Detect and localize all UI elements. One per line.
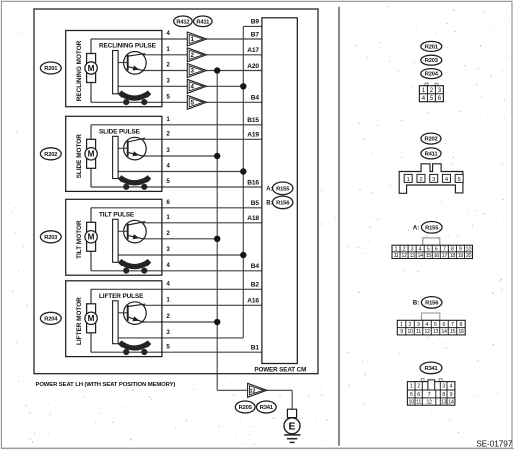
svg-text:B:: B: — [266, 201, 272, 207]
svg-text:12: 12 — [424, 329, 430, 335]
svg-text:16: 16 — [458, 329, 464, 335]
svg-text:2: 2 — [403, 246, 406, 252]
svg-text:2: 2 — [166, 230, 170, 237]
svg-text:13: 13 — [409, 253, 415, 259]
svg-text:4: 4 — [419, 246, 422, 252]
svg-text:SLIDE MOTOR: SLIDE MOTOR — [76, 134, 83, 179]
svg-text:2: 2 — [419, 177, 422, 183]
svg-text:A18: A18 — [247, 215, 259, 222]
svg-text:R411: R411 — [425, 151, 439, 157]
svg-text:2: 2 — [166, 131, 170, 138]
svg-text:R341: R341 — [424, 366, 438, 372]
svg-text:5: 5 — [166, 94, 170, 101]
svg-text:5: 5 — [410, 392, 413, 398]
svg-text:10: 10 — [409, 400, 415, 406]
svg-text:8: 8 — [459, 322, 462, 328]
svg-text:6: 6 — [417, 392, 420, 398]
svg-text:E: E — [288, 420, 295, 432]
svg-text:3: 3 — [166, 78, 170, 85]
svg-text:POWER SEAT LH (WITH SEAT POSIT: POWER SEAT LH (WITH SEAT POSITION MEMORY… — [36, 382, 176, 388]
svg-text:8: 8 — [442, 392, 445, 398]
svg-text:R156: R156 — [425, 300, 439, 306]
svg-text:1: 1 — [166, 214, 170, 221]
svg-text:B9: B9 — [251, 19, 260, 26]
svg-text:B:: B: — [413, 300, 420, 307]
svg-text:TILT MOTOR: TILT MOTOR — [76, 220, 83, 259]
svg-text:1: 1 — [395, 246, 398, 252]
svg-text:11: 11 — [416, 400, 421, 406]
svg-text:1: 1 — [166, 116, 170, 123]
svg-text:5: 5 — [166, 178, 170, 185]
svg-text:R155: R155 — [276, 186, 290, 192]
svg-text:RECLINING PULSE: RECLINING PULSE — [99, 43, 157, 50]
svg-text:R412: R412 — [176, 19, 189, 25]
svg-text:R156: R156 — [276, 200, 290, 206]
svg-text:A:: A: — [266, 187, 272, 193]
svg-text:4: 4 — [450, 384, 453, 390]
svg-text:2: 2 — [409, 322, 412, 328]
svg-text:B4: B4 — [251, 263, 260, 270]
svg-text:13: 13 — [433, 329, 439, 335]
svg-text:20: 20 — [466, 253, 472, 259]
svg-text:14: 14 — [418, 253, 424, 259]
svg-text:18: 18 — [450, 253, 456, 259]
svg-text:A20: A20 — [247, 63, 259, 70]
svg-text:R341: R341 — [260, 405, 274, 411]
svg-text:2: 2 — [417, 384, 420, 390]
svg-text:5: 5 — [190, 100, 194, 107]
svg-text:5: 5 — [458, 177, 461, 183]
svg-text:B2: B2 — [251, 282, 260, 289]
svg-text:3: 3 — [166, 147, 170, 154]
svg-text:A17: A17 — [247, 47, 259, 54]
svg-text:4: 4 — [426, 322, 429, 328]
svg-text:M: M — [88, 64, 95, 73]
svg-text:5: 5 — [166, 343, 170, 350]
svg-text:2: 2 — [166, 62, 170, 69]
svg-text:1: 1 — [400, 322, 403, 328]
svg-text:16: 16 — [434, 253, 440, 259]
svg-text:1: 1 — [407, 177, 410, 183]
svg-text:M: M — [88, 150, 95, 159]
svg-text:15: 15 — [450, 329, 456, 335]
svg-text:12: 12 — [426, 400, 432, 406]
svg-text:SLIDE PULSE: SLIDE PULSE — [99, 128, 141, 135]
svg-text:1: 1 — [166, 46, 170, 53]
svg-text:R202: R202 — [424, 137, 437, 143]
svg-text:2: 2 — [166, 313, 170, 320]
svg-text:R201: R201 — [44, 66, 58, 72]
svg-text:4: 4 — [166, 163, 170, 170]
svg-text:A19: A19 — [247, 132, 259, 139]
svg-text:R203: R203 — [425, 58, 439, 64]
svg-text:RECLINING MOTOR: RECLINING MOTOR — [76, 40, 83, 101]
svg-text:10: 10 — [465, 246, 471, 252]
svg-text:9: 9 — [400, 329, 403, 335]
svg-text:4: 4 — [166, 30, 170, 37]
svg-text:R204: R204 — [44, 316, 58, 322]
svg-text:3: 3 — [190, 68, 194, 75]
svg-text:R204: R204 — [425, 72, 439, 78]
svg-text:14: 14 — [441, 329, 447, 335]
svg-text:B7: B7 — [251, 31, 260, 38]
svg-text:3: 3 — [417, 322, 420, 328]
svg-text:10: 10 — [407, 329, 413, 335]
svg-text:R201: R201 — [425, 44, 439, 50]
svg-text:3: 3 — [442, 384, 445, 390]
svg-text:6: 6 — [435, 246, 438, 252]
svg-text:7: 7 — [443, 246, 446, 252]
svg-text:TILT PULSE: TILT PULSE — [99, 211, 135, 218]
svg-text:7: 7 — [451, 322, 454, 328]
svg-text:5: 5 — [434, 322, 437, 328]
svg-text:8: 8 — [451, 246, 454, 252]
svg-text:R155: R155 — [425, 225, 439, 231]
svg-text:12: 12 — [250, 389, 256, 395]
svg-text:R411: R411 — [196, 19, 210, 25]
svg-text:13: 13 — [441, 400, 447, 406]
svg-text:7: 7 — [428, 392, 431, 398]
svg-text:5: 5 — [427, 246, 430, 252]
svg-text:R205: R205 — [239, 405, 253, 411]
svg-text:M: M — [88, 314, 95, 323]
svg-text:4: 4 — [166, 281, 170, 288]
svg-text:17: 17 — [442, 253, 448, 259]
svg-text:M: M — [88, 233, 95, 242]
svg-text:3: 3 — [166, 246, 170, 253]
svg-text:A16: A16 — [247, 298, 259, 305]
svg-text:1: 1 — [166, 297, 170, 304]
svg-text:3: 3 — [432, 177, 435, 183]
svg-text:3: 3 — [166, 329, 170, 336]
svg-text:R203: R203 — [44, 235, 58, 241]
svg-text:6: 6 — [442, 322, 445, 328]
svg-text:R202: R202 — [44, 152, 57, 158]
svg-text:4: 4 — [190, 84, 194, 91]
svg-text:11: 11 — [416, 329, 421, 335]
svg-text:4: 4 — [166, 262, 170, 269]
svg-text:9: 9 — [450, 392, 453, 398]
svg-text:2: 2 — [190, 52, 194, 59]
svg-text:LIFTER PULSE: LIFTER PULSE — [99, 293, 144, 300]
svg-text:11: 11 — [394, 253, 399, 259]
svg-text:LIFTER MOTOR: LIFTER MOTOR — [76, 297, 83, 345]
svg-text:B15: B15 — [247, 117, 259, 124]
svg-text:B4: B4 — [251, 95, 260, 102]
svg-text:1: 1 — [190, 36, 194, 43]
svg-text:3: 3 — [411, 246, 414, 252]
svg-text:15: 15 — [426, 253, 432, 259]
svg-text:9: 9 — [459, 246, 462, 252]
svg-text:19: 19 — [458, 253, 464, 259]
svg-text:6: 6 — [166, 199, 170, 206]
svg-text:B1: B1 — [251, 345, 260, 352]
svg-text:A:: A: — [413, 225, 420, 232]
svg-text:B16: B16 — [247, 179, 259, 186]
svg-text:1: 1 — [410, 384, 413, 390]
svg-text:SE-01797: SE-01797 — [476, 439, 513, 449]
svg-text:12: 12 — [401, 253, 407, 259]
svg-text:POWER SEAT CM: POWER SEAT CM — [254, 366, 306, 373]
svg-text:14: 14 — [448, 400, 454, 406]
svg-text:B5: B5 — [251, 200, 260, 207]
